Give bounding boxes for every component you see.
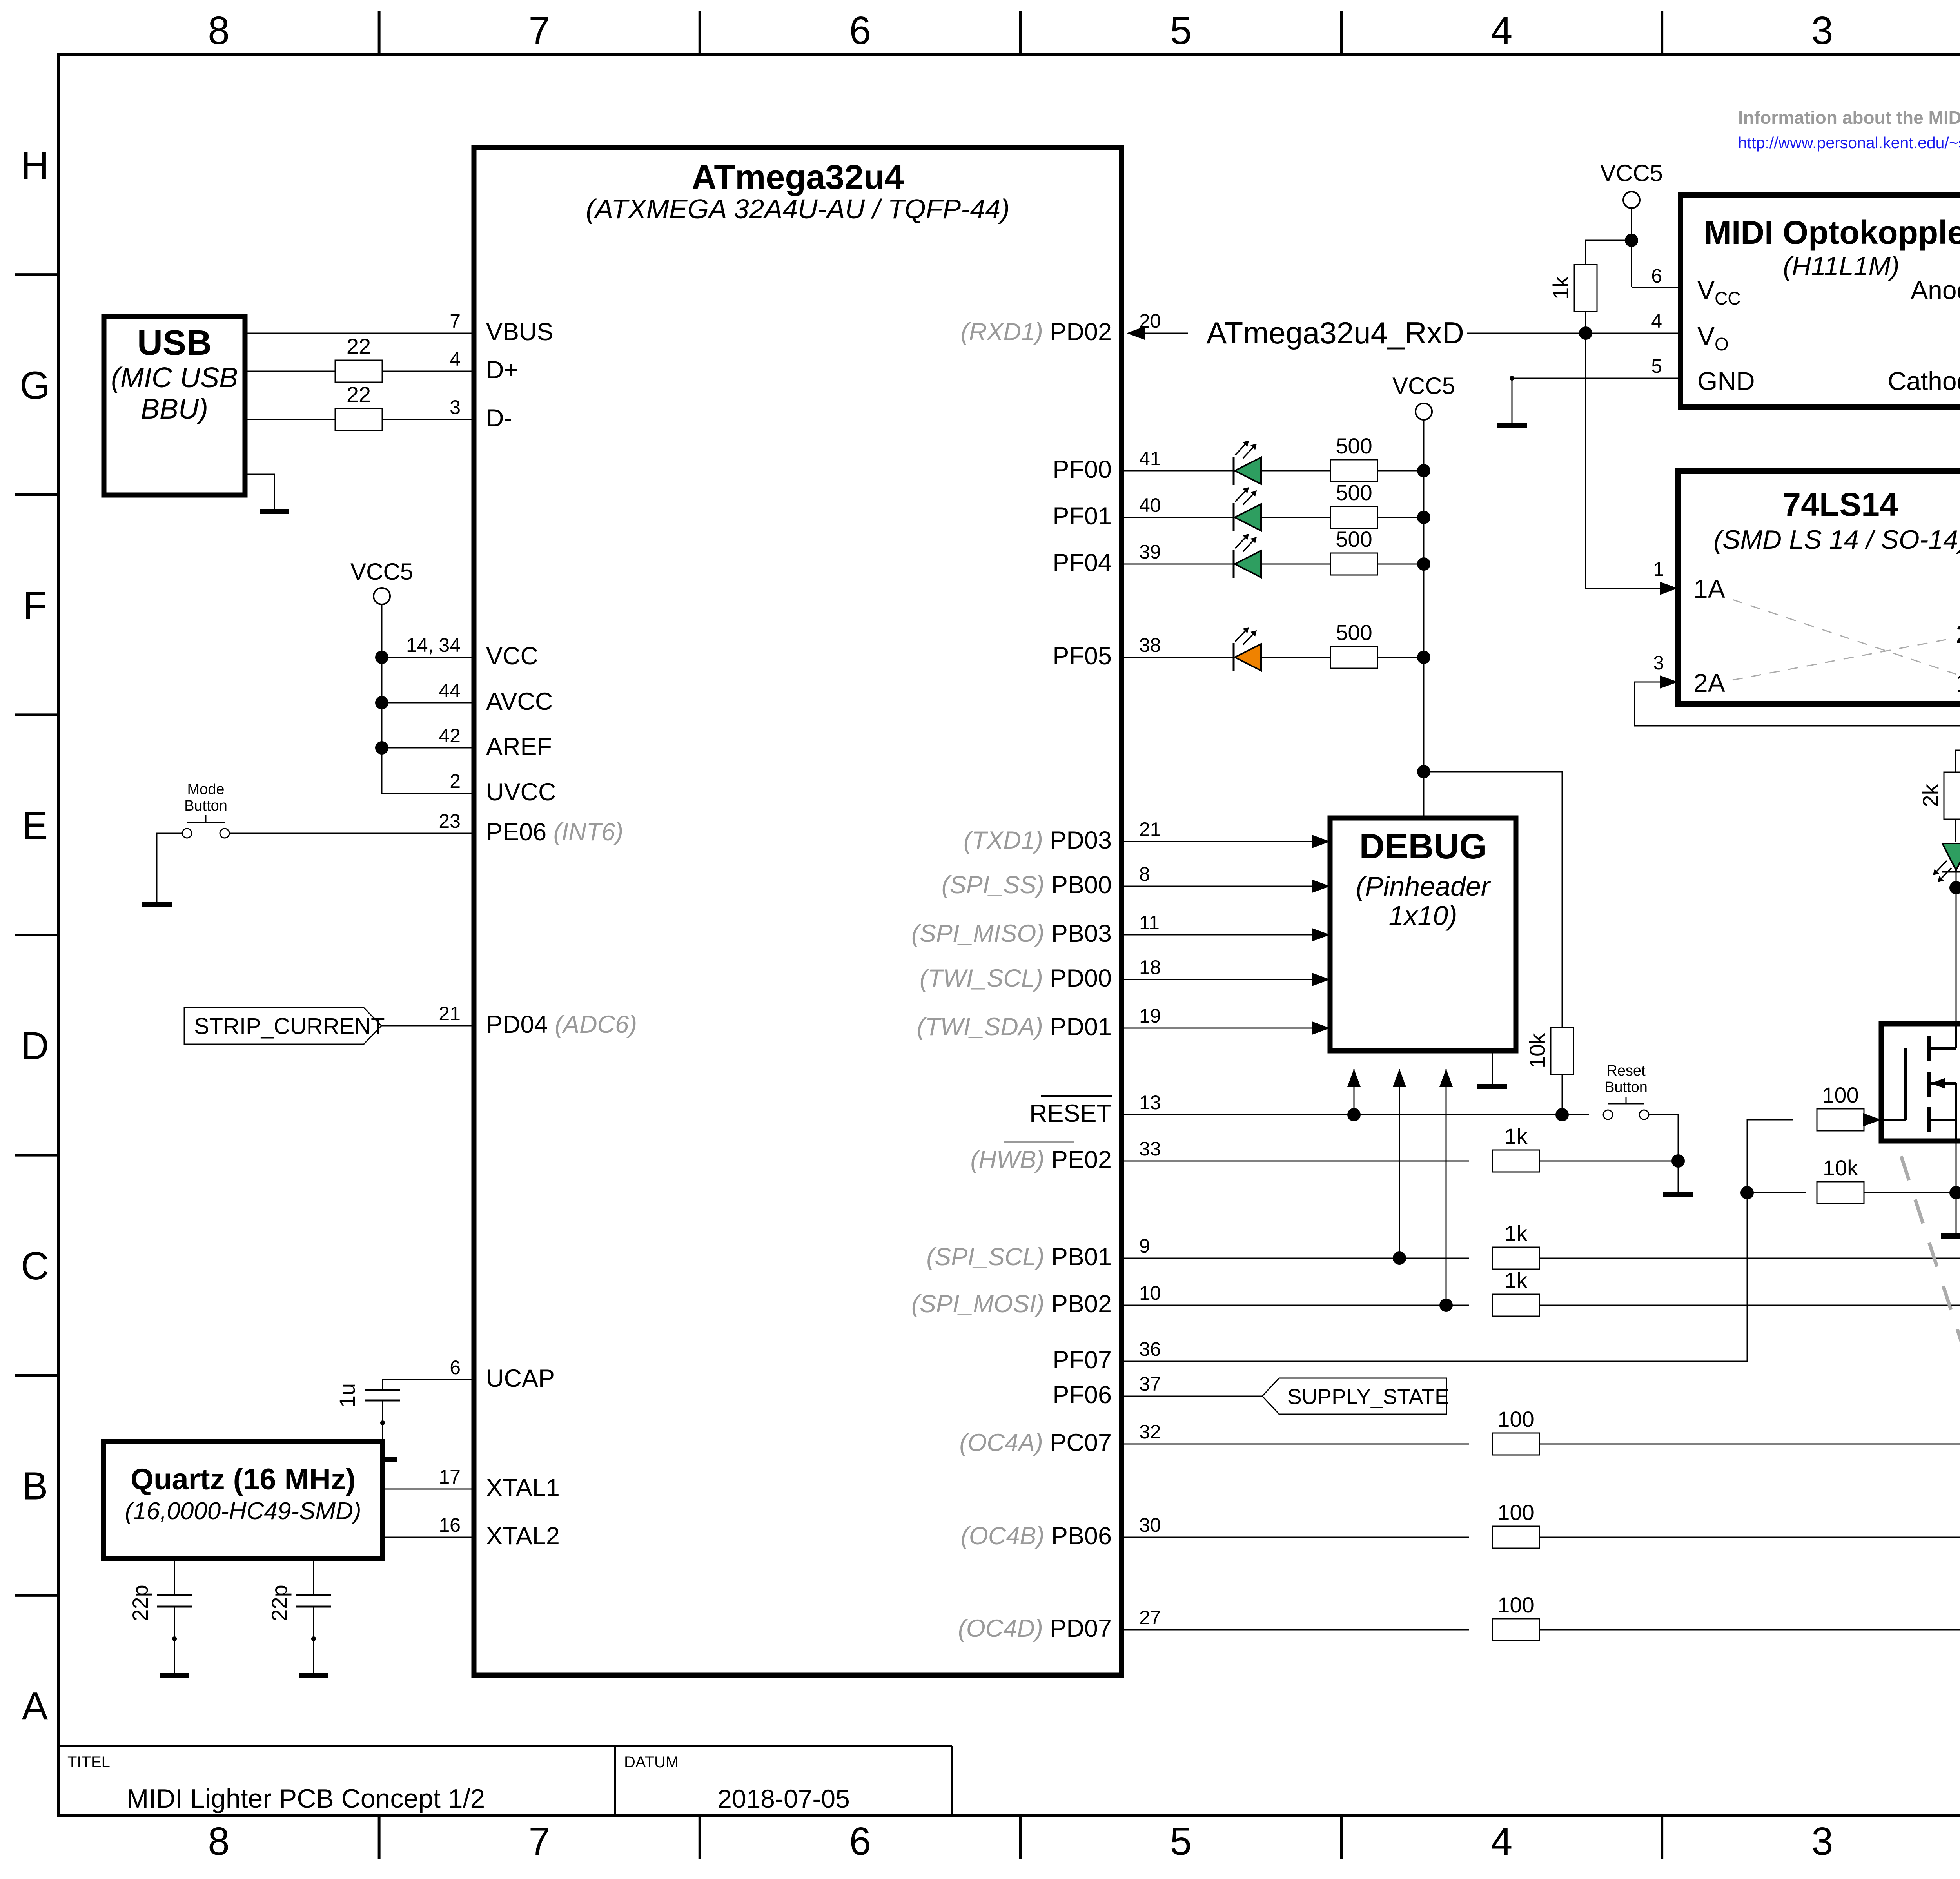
svg-text:GND: GND xyxy=(1697,366,1755,395)
svg-text:(SPI_SS) PB00: (SPI_SS) PB00 xyxy=(942,871,1112,899)
svg-text:(TWI_SCL) PD00: (TWI_SCL) PD00 xyxy=(920,965,1112,992)
svg-text:8: 8 xyxy=(208,1819,230,1863)
svg-text:1k: 1k xyxy=(1504,1221,1528,1246)
svg-text:(16,0000-HC49-SMD): (16,0000-HC49-SMD) xyxy=(125,1498,361,1525)
svg-text:22p: 22p xyxy=(267,1585,292,1621)
svg-text:6: 6 xyxy=(849,1819,871,1863)
svg-text:38: 38 xyxy=(1139,634,1161,656)
svg-text:Reset: Reset xyxy=(1606,1063,1646,1079)
svg-text:4: 4 xyxy=(450,348,461,370)
svg-text:(Pinheader: (Pinheader xyxy=(1356,871,1491,901)
svg-text:D+: D+ xyxy=(486,356,518,384)
svg-text:1x10): 1x10) xyxy=(1388,900,1457,931)
svg-text:5: 5 xyxy=(1170,1819,1192,1863)
svg-text:4: 4 xyxy=(1651,310,1662,332)
svg-text:E: E xyxy=(22,804,48,848)
svg-text:H: H xyxy=(21,143,49,187)
svg-text:PF05: PF05 xyxy=(1053,642,1112,670)
svg-text:PD04 (ADC6): PD04 (ADC6) xyxy=(486,1011,637,1038)
svg-text:3: 3 xyxy=(1811,9,1833,53)
svg-text:17: 17 xyxy=(439,1466,461,1488)
svg-text:(SMD LS 14 / SO-14): (SMD LS 14 / SO-14) xyxy=(1713,525,1960,555)
svg-text:7: 7 xyxy=(528,1819,550,1863)
svg-text:SUPPLY_STATE: SUPPLY_STATE xyxy=(1287,1384,1449,1409)
svg-text:D-: D- xyxy=(486,404,512,432)
svg-text:(SPI_MISO) PB03: (SPI_MISO) PB03 xyxy=(911,920,1112,947)
svg-text:Mode: Mode xyxy=(187,781,224,798)
svg-text:4: 4 xyxy=(1491,9,1513,53)
svg-text:PF00: PF00 xyxy=(1053,456,1112,483)
svg-text:(TXD1) PD03: (TXD1) PD03 xyxy=(964,827,1112,854)
svg-text:11: 11 xyxy=(1139,912,1160,934)
svg-text:(OC4A) PC07: (OC4A) PC07 xyxy=(959,1429,1112,1456)
svg-text:33: 33 xyxy=(1139,1138,1161,1160)
svg-text:2k: 2k xyxy=(1918,784,1943,807)
svg-text:8: 8 xyxy=(208,9,230,53)
svg-text:1A: 1A xyxy=(1693,574,1725,603)
svg-text:Quartz (16 MHz): Quartz (16 MHz) xyxy=(131,1463,356,1496)
svg-text:Button: Button xyxy=(1604,1079,1648,1095)
svg-text:(RXD1) PD02: (RXD1) PD02 xyxy=(961,318,1112,346)
svg-text:21: 21 xyxy=(1139,818,1161,840)
svg-text:3: 3 xyxy=(450,396,461,418)
svg-text:2: 2 xyxy=(450,770,461,792)
svg-text:XTAL2: XTAL2 xyxy=(486,1522,560,1550)
svg-text:100: 100 xyxy=(1497,1407,1534,1431)
svg-text:Anode: Anode xyxy=(1911,276,1960,305)
svg-text:USB: USB xyxy=(137,323,212,363)
svg-text:18: 18 xyxy=(1139,956,1161,978)
svg-text:41: 41 xyxy=(1139,448,1161,470)
svg-text:32: 32 xyxy=(1139,1421,1161,1443)
svg-text:(OC4B) PB06: (OC4B) PB06 xyxy=(961,1522,1112,1550)
svg-text:6: 6 xyxy=(849,9,871,53)
svg-text:16: 16 xyxy=(439,1514,461,1536)
svg-text:42: 42 xyxy=(439,725,461,747)
svg-text:4: 4 xyxy=(1491,1819,1513,1863)
svg-text:500: 500 xyxy=(1336,527,1372,551)
svg-text:VCC5: VCC5 xyxy=(350,559,413,585)
svg-text:14, 34: 14, 34 xyxy=(406,634,461,656)
svg-text:23: 23 xyxy=(439,810,461,832)
svg-text:BBU): BBU) xyxy=(141,394,208,425)
svg-text:C: C xyxy=(21,1244,49,1288)
svg-text:UVCC: UVCC xyxy=(486,778,556,806)
svg-text:10: 10 xyxy=(1139,1282,1161,1304)
svg-text:1u: 1u xyxy=(335,1383,359,1407)
svg-text:2A: 2A xyxy=(1693,668,1725,697)
svg-text:22: 22 xyxy=(347,334,371,359)
svg-text:DATUM: DATUM xyxy=(624,1754,679,1771)
svg-text:21: 21 xyxy=(439,1003,461,1025)
svg-text:22p: 22p xyxy=(128,1585,152,1621)
svg-text:13: 13 xyxy=(1139,1092,1161,1114)
svg-text:3: 3 xyxy=(1653,652,1664,674)
svg-text:STRIP_CURRENT: STRIP_CURRENT xyxy=(194,1014,385,1039)
svg-text:G: G xyxy=(20,363,50,407)
svg-text:Cathode: Cathode xyxy=(1887,366,1960,395)
svg-text:74LS14: 74LS14 xyxy=(1782,486,1898,523)
svg-text:36: 36 xyxy=(1139,1338,1161,1360)
svg-text:TITEL: TITEL xyxy=(67,1754,110,1771)
svg-text:(SPI_MOSI) PB02: (SPI_MOSI) PB02 xyxy=(911,1290,1112,1318)
svg-text:ATmega32u4: ATmega32u4 xyxy=(691,158,904,196)
svg-text:XTAL1: XTAL1 xyxy=(486,1474,560,1502)
svg-text:1k: 1k xyxy=(1504,1124,1528,1148)
svg-text:PF01: PF01 xyxy=(1053,502,1112,530)
svg-text:Information about the MIDI-cir: Information about the MIDI-circuit: xyxy=(1738,107,1960,128)
svg-text:A: A xyxy=(22,1684,48,1728)
svg-text:9: 9 xyxy=(1139,1235,1150,1257)
svg-text:6: 6 xyxy=(1651,265,1662,287)
svg-text:100: 100 xyxy=(1497,1592,1534,1617)
svg-text:RESET: RESET xyxy=(1029,1100,1112,1127)
svg-text:3: 3 xyxy=(1811,1819,1833,1863)
svg-text:D: D xyxy=(21,1024,49,1068)
svg-text:(HWB) PE02: (HWB) PE02 xyxy=(970,1146,1112,1173)
svg-text:40: 40 xyxy=(1139,494,1161,516)
svg-text:VCC5: VCC5 xyxy=(1392,373,1455,399)
svg-text:8: 8 xyxy=(1139,863,1150,885)
svg-text:19: 19 xyxy=(1139,1005,1161,1027)
svg-text:PF04: PF04 xyxy=(1053,549,1112,577)
svg-text:1k: 1k xyxy=(1548,276,1573,299)
svg-text:http://www.personal.kent.edu/~: http://www.personal.kent.edu/~sbirch/Mus… xyxy=(1738,134,1960,152)
svg-text:(H11L1M): (H11L1M) xyxy=(1783,251,1899,281)
svg-text:MIDI Optokoppler: MIDI Optokoppler xyxy=(1704,214,1960,251)
svg-text:1Y: 1Y xyxy=(1956,668,1960,697)
svg-text:Button: Button xyxy=(184,798,227,814)
svg-text:F: F xyxy=(23,584,47,628)
svg-text:(OC4D) PD07: (OC4D) PD07 xyxy=(958,1615,1112,1642)
svg-text:39: 39 xyxy=(1139,541,1161,563)
svg-text:27: 27 xyxy=(1139,1607,1161,1629)
svg-text:5: 5 xyxy=(1651,355,1662,377)
svg-text:(ATXMEGA 32A4U-AU / TQFP-44): (ATXMEGA 32A4U-AU / TQFP-44) xyxy=(586,194,1009,224)
svg-text:PF07: PF07 xyxy=(1053,1346,1112,1374)
svg-text:100: 100 xyxy=(1822,1083,1858,1107)
svg-text:7: 7 xyxy=(528,9,550,53)
svg-text:10k: 10k xyxy=(1525,1033,1550,1068)
svg-text:6: 6 xyxy=(450,1357,461,1378)
svg-text:AVCC: AVCC xyxy=(486,688,553,715)
svg-text:(MIC USB: (MIC USB xyxy=(111,362,238,394)
svg-text:PF06: PF06 xyxy=(1053,1381,1112,1409)
svg-text:7: 7 xyxy=(450,310,461,332)
svg-text:2018-07-05: 2018-07-05 xyxy=(717,1784,850,1813)
svg-text:VCC: VCC xyxy=(486,642,538,670)
svg-text:AREF: AREF xyxy=(486,733,552,760)
svg-text:5: 5 xyxy=(1170,9,1192,53)
svg-text:(TWI_SDA) PD01: (TWI_SDA) PD01 xyxy=(917,1013,1112,1041)
svg-text:B: B xyxy=(22,1464,48,1508)
svg-text:1k: 1k xyxy=(1504,1268,1528,1293)
svg-text:37: 37 xyxy=(1139,1373,1161,1395)
svg-text:1: 1 xyxy=(1653,558,1664,580)
svg-text:500: 500 xyxy=(1336,480,1372,505)
svg-text:DEBUG: DEBUG xyxy=(1359,827,1486,866)
svg-text:100: 100 xyxy=(1497,1500,1534,1525)
svg-text:UCAP: UCAP xyxy=(486,1365,555,1392)
svg-text:ATmega32u4_RxD: ATmega32u4_RxD xyxy=(1206,316,1464,350)
svg-text:(SPI_SCL) PB01: (SPI_SCL) PB01 xyxy=(926,1243,1112,1271)
svg-text:PE06 (INT6): PE06 (INT6) xyxy=(486,818,623,846)
svg-text:22: 22 xyxy=(347,382,371,407)
svg-text:MIDI Lighter PCB Concept 1/2: MIDI Lighter PCB Concept 1/2 xyxy=(127,1784,485,1814)
svg-text:44: 44 xyxy=(439,680,461,702)
svg-text:30: 30 xyxy=(1139,1514,1161,1536)
svg-text:VBUS: VBUS xyxy=(486,318,554,346)
svg-text:500: 500 xyxy=(1336,433,1372,458)
svg-text:10k: 10k xyxy=(1823,1155,1858,1180)
svg-text:VCC5: VCC5 xyxy=(1600,160,1663,186)
svg-text:500: 500 xyxy=(1336,620,1372,645)
svg-text:2Y: 2Y xyxy=(1956,619,1960,648)
